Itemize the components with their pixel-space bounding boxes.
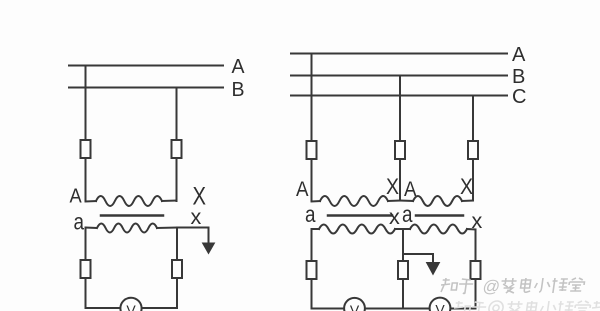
transformer TV core bar: [101, 214, 163, 217]
fuse FU1: [81, 140, 91, 200]
svg-text:A: A: [296, 178, 309, 201]
transformer TV secondary winding a-x: [86, 224, 178, 233]
svg-text:X: X: [460, 174, 473, 199]
svg-text:V: V: [126, 302, 136, 311]
fuse FU8 (secondary left): [307, 261, 317, 279]
wire: phase C drop to fuse FU7: [472, 96, 474, 142]
transformer TV2 core bar: [416, 214, 463, 217]
svg-text:a: a: [402, 201, 413, 227]
wire: secondary a down leg: [85, 228, 87, 309]
wire: phase A drop to fuse FU5: [311, 54, 313, 142]
wire: TV2 secondary x down leg: [475, 230, 477, 309]
wire: secondary mid junction down leg: [402, 229, 404, 309]
wire: secondary x down leg: [176, 228, 178, 309]
voltmeter V1: [344, 298, 365, 311]
ground arrow (right circuit): [427, 263, 440, 275]
svg-text:B: B: [512, 66, 525, 88]
bus B (left circuit): [69, 87, 223, 89]
fuse FU10 (secondary right): [471, 261, 481, 279]
svg-text:@: @: [481, 277, 501, 296]
svg-text:x: x: [191, 206, 202, 229]
svg-text:V: V: [350, 302, 360, 311]
ground arrow: [203, 243, 215, 254]
voltmeter V (left circuit): [120, 298, 141, 311]
svg-text:A: A: [232, 56, 246, 78]
wire: secondary x to ground: [177, 228, 209, 245]
voltmeter V2: [430, 298, 451, 311]
svg-text:A: A: [512, 44, 526, 66]
fuse FU4 (secondary right): [172, 260, 182, 278]
transformer TV1 primary winding A-X: [312, 196, 401, 206]
fuse FU3 (secondary left): [81, 260, 91, 278]
wire: TV1 secondary a down leg: [311, 229, 313, 309]
svg-text:A: A: [70, 186, 83, 208]
transformer TV1 secondary winding a-x: [312, 225, 404, 234]
svg-text:x: x: [472, 210, 483, 233]
transformer TV primary winding A-X: [86, 196, 177, 206]
watermark ghost row: [453, 301, 600, 311]
fuse FU2: [172, 140, 182, 201]
svg-text:A: A: [404, 178, 417, 201]
transformer TV2 secondary winding a-x: [403, 225, 476, 234]
wire: bottom loop (right circuit): [312, 308, 476, 310]
svg-text:V: V: [435, 302, 445, 311]
transformer TV1 core bar: [328, 214, 392, 217]
wire: bus A drop to fuse FU1: [85, 66, 87, 141]
fuse FU5: [307, 141, 317, 201]
svg-text:C: C: [512, 86, 526, 108]
bus C (right circuit): [291, 95, 507, 97]
transformer TV2 primary winding A-X: [400, 196, 473, 206]
wire: phase B drop to fuse FU6: [399, 76, 401, 142]
svg-text:B: B: [232, 79, 245, 101]
fuse FU6: [395, 141, 405, 201]
wire: mid leg branch to ground: [403, 254, 433, 264]
wire: bus B drop to fuse FU2: [176, 88, 178, 141]
watermark 知乎@变电小课堂: [439, 277, 600, 311]
svg-text:a: a: [74, 209, 85, 235]
bus A (right circuit): [291, 53, 507, 55]
svg-text:x: x: [389, 206, 400, 229]
bus A (left circuit): [69, 65, 223, 67]
bus B (right circuit): [291, 75, 507, 77]
wire: bottom loop: [86, 307, 178, 309]
fuse FU9 (secondary middle): [398, 261, 408, 279]
fuse FU7: [468, 141, 478, 201]
svg-text:X: X: [386, 174, 399, 199]
svg-text:a: a: [305, 201, 316, 227]
